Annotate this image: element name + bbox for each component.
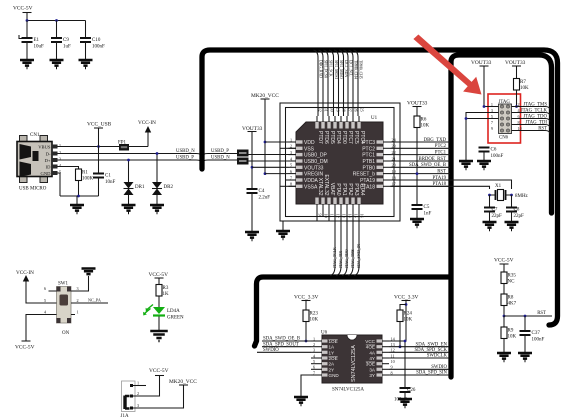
svg-text:VOUT33: VOUT33 (242, 126, 263, 132)
wire ID to R1 (58, 167, 79, 170)
svg-text:100K: 100K (82, 177, 94, 182)
svg-text:R8: R8 (508, 296, 514, 301)
wire DR2 to gnd (156, 195, 158, 204)
svg-text:R35: R35 (508, 274, 517, 279)
wire SDA_SWD_OE_B (262, 340, 311, 342)
wire SWDIO left (257, 351, 311, 353)
capacitor C6 100nF (479, 148, 490, 152)
svg-text:JTAG_TDO: JTAG_TDO (345, 249, 349, 268)
svg-text:SW1: SW1 (58, 282, 69, 287)
svg-text:VOUT33: VOUT33 (407, 101, 428, 107)
U6 pin 7 GND (322, 373, 328, 376)
svg-text:4Y: 4Y (369, 356, 375, 361)
wire pin3 to gnd (466, 113, 499, 161)
svg-text:USB0_DP: USB0_DP (304, 153, 327, 159)
U1 pin 14 PTA2 (345, 198, 348, 205)
svg-text:SDA_SPD_SIN: SDA_SPD_SIN (416, 371, 447, 376)
wire C1 to gnd rail (98, 178, 100, 197)
U1 pin 16 PTA4 (357, 198, 360, 205)
svg-text:10nF: 10nF (105, 180, 116, 185)
CN1 pin 5 GND (52, 171, 58, 175)
svg-text:12: 12 (336, 214, 341, 218)
wire bundle MCU top to highlighted bus (314, 50, 319, 116)
svg-text:R24: R24 (404, 312, 413, 317)
TVS diode DR2 (152, 182, 162, 189)
svg-text:VCC-5V: VCC-5V (494, 258, 514, 264)
wire C5 to gnd (416, 209, 418, 218)
power flag VCC-5V (RST) (500, 263, 509, 265)
U1 pin 27 PTC7 (345, 122, 348, 129)
thick highlighted trace (to 74LVC125A) (255, 277, 451, 346)
U1 pin 1 VDD (296, 140, 303, 143)
svg-text:2OE: 2OE (329, 356, 338, 361)
svg-text:SDA_SPD_SCK: SDA_SPD_SCK (414, 348, 447, 353)
svg-text:SDA_SWD_EN: SDA_SWD_EN (416, 342, 448, 347)
resistor network on USB lines (237, 150, 249, 157)
svg-text:10K: 10K (404, 318, 413, 323)
svg-text:C10: C10 (92, 38, 101, 43)
resistor R1 (76, 169, 82, 181)
wire C4 to gnd (251, 193, 253, 231)
wire X1 to C7 (489, 195, 491, 207)
wire VCC_USB to C1 (98, 128, 100, 173)
svg-text:1: 1 (313, 336, 315, 341)
svg-text:1: 1 (77, 310, 79, 315)
wire cap rail (27, 20, 86, 22)
wire C10 bottom lead (85, 42, 87, 59)
svg-text:VDDA: VDDA (304, 178, 319, 184)
svg-text:13: 13 (342, 214, 347, 218)
svg-text:NC: NC (508, 280, 516, 285)
svg-text:C37: C37 (532, 331, 541, 336)
svg-text:JTAG_TDI: JTAG_TDI (339, 250, 343, 268)
svg-text:SWDCLK: SWDCLK (427, 354, 448, 359)
wire SDA_SPD_SIN (389, 374, 449, 376)
svg-text:C8: C8 (514, 208, 520, 213)
power flag VCC-5V (23, 12, 32, 14)
wire to C26 (404, 341, 406, 388)
wire to VDD (265, 141, 289, 143)
svg-text:J1A: J1A (121, 414, 129, 419)
svg-text:3: 3 (59, 157, 61, 162)
wire pin5 join (466, 118, 499, 120)
svg-text:16: 16 (360, 214, 365, 218)
ground C9 (50, 60, 64, 68)
wire XTAL32 (316, 211, 318, 221)
ground JTAG A (459, 161, 473, 169)
svg-text:1uF: 1uF (63, 45, 71, 50)
U6 pin 8 3Y (377, 373, 383, 376)
wire R3 to LED (158, 296, 160, 307)
svg-text:E1: E1 (34, 38, 40, 43)
svg-text:D+: D+ (45, 158, 51, 163)
U1 pin 24 PTC3 (377, 140, 384, 143)
svg-text:SN74LVC125A: SN74LVC125A (332, 388, 364, 393)
U1 pin 3 USB0_DP (296, 153, 303, 156)
power flag VCC-5V (LED) (155, 277, 164, 279)
ground C7 (483, 222, 497, 230)
svg-text:22pF: 22pF (514, 214, 525, 219)
svg-text:100nF: 100nF (532, 338, 545, 343)
capacitor C26 100nF (400, 388, 411, 392)
svg-text:CN1: CN1 (30, 133, 40, 138)
svg-text:SPI1_PCS0: SPI1_PCS0 (324, 60, 328, 78)
wire VSS to loop (280, 147, 296, 149)
svg-text:SDA_SWD_OE_B: SDA_SWD_OE_B (263, 337, 300, 342)
wire to USB0_DP (249, 154, 297, 156)
svg-text:6: 6 (313, 365, 315, 370)
ground MCU (276, 231, 290, 239)
svg-text:DR1: DR1 (135, 185, 145, 190)
svg-text:SDA_SWD_IN: SDA_SWD_IN (357, 244, 361, 268)
wire USBD_P net left (58, 160, 238, 164)
U1 pin 9 XTAL32 (315, 198, 318, 205)
U1 pin 6 VREGIN (296, 172, 303, 175)
capacitor C7 22pF (484, 208, 495, 212)
svg-text:JTAG_TDO: JTAG_TDO (523, 115, 547, 120)
U1 pin 11 VBAT (327, 198, 330, 205)
power flag VCC_3.3V (R24) (402, 300, 411, 302)
power flag VOUT33 (R7) (512, 65, 521, 67)
TVS diode DR1 (124, 182, 134, 189)
wire X1 to C8 (511, 195, 513, 207)
svg-text:VOUT33: VOUT33 (471, 60, 492, 66)
U1 pin 7 VDDA (296, 178, 303, 181)
ground C8 (505, 222, 519, 230)
svg-text:D-: D- (46, 151, 51, 156)
svg-text:PTC1: PTC1 (362, 153, 375, 159)
svg-text:ON: ON (62, 331, 70, 336)
U1 pin 28 PTD0 (339, 122, 342, 129)
svg-text:22pF: 22pF (492, 214, 503, 219)
svg-text:PTD7: PTD7 (317, 131, 323, 144)
U1 pin 18 PTA19 (377, 178, 384, 181)
svg-text:R9: R9 (508, 329, 514, 334)
power flag VCC_3.3V (R23) (302, 300, 311, 302)
U6 pin 11 4Y (377, 356, 383, 359)
svg-text:SWDIO: SWDIO (431, 365, 447, 370)
svg-text:SN74LVC125A: SN74LVC125A (351, 345, 357, 382)
wire E1 top lead (26, 21, 28, 38)
ground SW1 (82, 269, 96, 275)
net label JTAG_TMS (512, 107, 551, 110)
svg-text:R3: R3 (163, 286, 169, 291)
svg-text:2Y: 2Y (329, 367, 335, 372)
svg-text:X1: X1 (495, 184, 502, 189)
wire bundle MCU to 74LVC125A bus (330, 211, 335, 276)
svg-text:VCC-5V: VCC-5V (149, 272, 169, 278)
wire VCC-IN lead (147, 132, 149, 147)
capacitor C37 100nF (520, 331, 531, 335)
svg-text:U1: U1 (371, 116, 378, 121)
svg-text:2A: 2A (329, 362, 336, 367)
svg-text:PTC5: PTC5 (353, 131, 359, 144)
svg-text:1OE: 1OE (329, 339, 338, 344)
wire R7 to TMS (516, 90, 518, 107)
svg-text:VCC-IN: VCC-IN (16, 270, 34, 276)
red highlight arrow (413, 35, 481, 95)
resistor R35 (501, 272, 507, 284)
wire box to gnd (282, 221, 284, 230)
svg-text:R6: R6 (421, 118, 427, 123)
svg-text:C1: C1 (105, 174, 111, 179)
resistor R9 (501, 327, 507, 339)
svg-text:VCC: VCC (365, 339, 375, 344)
net label JTAG_TDO (512, 119, 551, 122)
svg-text:2.2uF: 2.2uF (259, 196, 271, 201)
U1 pin 25 PTC4 (357, 122, 360, 129)
svg-text:VCC_3.3V: VCC_3.3V (394, 295, 419, 301)
capacitor C9 1uF (51, 38, 62, 42)
svg-text:28: 28 (342, 108, 347, 112)
power flag MK20_VCC (J1A) (179, 384, 188, 386)
svg-text:5: 5 (290, 163, 292, 168)
svg-text:3OE: 3OE (366, 362, 375, 367)
U6 pin 14 VCC (377, 339, 383, 342)
U1 pin 22 PTC1 (377, 153, 384, 156)
svg-text:100nF: 100nF (491, 154, 504, 159)
wire R35 to R8 (503, 284, 505, 295)
svg-text:VCC-5V: VCC-5V (15, 345, 35, 351)
svg-text:PTD5: PTD5 (329, 131, 335, 144)
svg-text:USBD_N: USBD_N (176, 149, 195, 154)
U1 pin 8 VSSA (296, 185, 303, 188)
wire J1A pin1 (132, 385, 147, 387)
svg-text:100nF: 100nF (92, 45, 105, 50)
thick highlighted trace (inner SWD branch) (451, 55, 552, 377)
wire VBUS net (58, 146, 149, 148)
svg-text:DR2: DR2 (164, 185, 174, 190)
U6 pin 12 4A (377, 351, 383, 354)
wire C37 to gnd (524, 335, 526, 352)
svg-text:5: 5 (313, 359, 315, 364)
svg-text:10K: 10K (508, 335, 517, 340)
wire VCC-IN to pin5 (26, 282, 49, 304)
svg-text:RESET_b: RESET_b (353, 172, 375, 178)
svg-text:10: 10 (324, 214, 329, 218)
svg-text:PTD4: PTD4 (335, 131, 341, 144)
svg-text:VREGIN: VREGIN (304, 172, 324, 178)
ground U6 (294, 397, 308, 405)
wire gnd rail (60, 195, 99, 197)
svg-text:SDA_SPD_SOUT: SDA_SPD_SOUT (263, 342, 299, 347)
svg-text:10K: 10K (310, 318, 319, 323)
svg-text:JTAG_TMS: JTAG_TMS (351, 249, 355, 268)
wire PTA19 to X1 right (391, 180, 512, 189)
svg-text:PTA0: PTA0 (335, 183, 341, 195)
resistor R6 (414, 116, 420, 128)
wire GND pin (301, 375, 311, 396)
wire SWDIO right (389, 368, 449, 370)
svg-text:6: 6 (290, 169, 292, 174)
svg-text:PTC7: PTC7 (347, 131, 353, 144)
ground C5 (410, 219, 424, 227)
svg-text:3: 3 (313, 348, 315, 353)
wire to VREGIN (265, 173, 289, 175)
wire SDA_SPD_SCK (389, 351, 449, 353)
U1 pin 19 RESET_b (377, 172, 384, 175)
U1 pin 10 EXTAL32 (321, 198, 324, 205)
U1 pin 29 PTD4 (333, 122, 336, 129)
U1 pin 21 PTB1 (377, 159, 384, 162)
wire SWDCLK (389, 357, 449, 359)
svg-text:USB0_DM: USB0_DM (304, 159, 328, 165)
wire R1 to gnd rail (78, 181, 80, 197)
U1 pin 23 PTC2 (377, 147, 384, 150)
ground C37 (518, 353, 532, 361)
wire R23 to pin1 (305, 322, 307, 342)
svg-text:1K: 1K (163, 292, 170, 297)
svg-text:1: 1 (59, 143, 61, 148)
svg-text:30: 30 (330, 108, 335, 112)
svg-text:NC_PA: NC_PA (88, 298, 101, 303)
power flag VOUT33 (R6) (413, 106, 422, 108)
wire C9 top lead (56, 21, 58, 38)
svg-text:SPI1_MOSI: SPI1_MOSI (334, 60, 338, 80)
capacitor C8 22pF (506, 208, 517, 212)
svg-text:C7: C7 (492, 208, 498, 213)
svg-text:VCC-5V: VCC-5V (13, 6, 33, 12)
resistor R23 (303, 310, 309, 322)
svg-text:32: 32 (318, 108, 323, 112)
svg-text:10: 10 (391, 359, 395, 364)
svg-text:JTAG_TMS: JTAG_TMS (523, 103, 547, 108)
svg-text:VCC-IN: VCC-IN (138, 120, 156, 126)
svg-text:PTA1: PTA1 (341, 183, 347, 195)
wire RST to bus (504, 315, 552, 317)
capacitor C5 1nF (412, 205, 423, 209)
wire R6 to C5 (416, 128, 418, 205)
capacitor C4 2.2uF (247, 189, 258, 193)
svg-text:27: 27 (348, 108, 353, 112)
svg-text:1nF: 1nF (424, 212, 432, 217)
resistor R3 (156, 285, 162, 297)
ground DR1 (122, 205, 136, 213)
wire J1A pin2 to VCC-5V (132, 376, 160, 397)
U6 pin 9 3A (377, 368, 383, 371)
wire C9 bottom lead (56, 42, 58, 59)
wire pin2 NC (75, 302, 108, 304)
svg-text:MK20_VCC: MK20_VCC (169, 379, 197, 385)
wire USBD_N net left (58, 154, 238, 158)
wire VDDA to loop (286, 179, 297, 181)
U6 pin 10 3OE (377, 362, 383, 365)
wire VOUT33 to pin1 (483, 66, 485, 107)
svg-text:10K: 10K (421, 124, 430, 129)
LED LD4A green (153, 307, 165, 314)
svg-text:TPM0_CH5: TPM0_CH5 (359, 60, 363, 79)
svg-text:C4: C4 (259, 189, 265, 194)
wire C7 to gnd (489, 212, 491, 222)
svg-text:3: 3 (290, 150, 292, 155)
capacitor C1 10nF (93, 174, 104, 178)
svg-text:EXTAL32: EXTAL32 (323, 174, 329, 195)
wire wrap-around outer loop (280, 103, 400, 221)
svg-text:1: 1 (290, 137, 292, 142)
U1 pin 4 USB0_DM (296, 159, 303, 162)
wire DR1 to gnd (128, 195, 130, 204)
resistor R8 (501, 294, 507, 306)
net label JTAG_TCLK (512, 113, 551, 116)
resistor R24 (397, 310, 403, 322)
svg-text:VOUT33: VOUT33 (505, 60, 526, 66)
power flag VCC-5V (J1A) (155, 375, 164, 377)
svg-text:10uF: 10uF (34, 45, 45, 50)
svg-text:2: 2 (137, 391, 139, 396)
svg-text:GREEN: GREEN (167, 316, 184, 321)
ground E1 (20, 60, 34, 68)
wire MK20_VCC to VREGIN (264, 99, 266, 174)
wire E1 bottom lead (26, 42, 28, 59)
svg-text:USB MICRO: USB MICRO (19, 187, 47, 192)
power flag VCC-5V (SW1) (22, 340, 31, 342)
U6 pin 3 1Y (322, 351, 328, 354)
ground USB (70, 205, 84, 213)
wire pin3 to gnd (75, 276, 89, 291)
svg-text:USBD_N: USBD_N (211, 156, 230, 161)
svg-text:SPI1_MISO: SPI1_MISO (339, 60, 343, 79)
svg-text:2: 2 (59, 150, 61, 155)
capacitor E1 10uF (22, 38, 33, 42)
ground LED (150, 331, 168, 341)
svg-text:2: 2 (313, 342, 315, 347)
svg-text:XTAL32: XTAL32 (317, 178, 323, 196)
wire to R35 (503, 264, 505, 272)
svg-text:C9: C9 (63, 38, 69, 43)
svg-text:4K7: 4K7 (508, 302, 517, 307)
wire pin4 to VCC-5V (26, 315, 49, 342)
svg-text:RST: RST (538, 127, 547, 132)
wire to R9 (503, 316, 505, 327)
svg-text:VBUS: VBUS (38, 144, 51, 149)
wire to VOUT33 pin (252, 166, 289, 168)
svg-text:VDD: VDD (304, 140, 315, 146)
wire C10 top lead (85, 21, 87, 38)
svg-text:VCC_3.3V: VCC_3.3V (294, 295, 319, 301)
wire DR1 lead (128, 160, 130, 182)
capacitor C10 100nF (80, 38, 91, 42)
svg-text:1A: 1A (329, 345, 336, 350)
svg-text:2: 2 (77, 298, 79, 303)
net label RST (512, 131, 551, 134)
U1 pin 15 PTA3 (351, 198, 354, 205)
thick highlighted trace (USB to RST loop) (202, 50, 558, 325)
wire DR2 lead (156, 154, 158, 183)
svg-text:JTAG_TCLK: JTAG_TCLK (521, 109, 548, 114)
svg-text:SPI1_SCK: SPI1_SCK (329, 60, 333, 77)
svg-text:ID: ID (46, 164, 52, 169)
svg-text:GND: GND (41, 171, 52, 176)
svg-text:PTD6: PTD6 (323, 131, 329, 144)
svg-text:C26: C26 (407, 388, 416, 393)
svg-text:7: 7 (491, 120, 493, 125)
wire to ground (76, 196, 78, 204)
svg-text:1Y: 1Y (329, 350, 335, 355)
wire to USB0_DM (249, 160, 297, 162)
wire branch R24 (400, 305, 406, 311)
svg-text:VOUT33: VOUT33 (304, 165, 324, 171)
wire pin1 (484, 106, 499, 108)
CN1 pin 2 D- (52, 152, 58, 156)
U1 pin 2 VSS (296, 147, 303, 150)
U1 pin 13 PTA1 (339, 198, 342, 205)
wire VOUT33 to C4 (251, 132, 253, 189)
net label JTAG_TDI (512, 125, 551, 128)
ground R9 (497, 353, 511, 361)
svg-text:PTA2: PTA2 (347, 183, 353, 195)
svg-text:DBG_RXD: DBG_RXD (319, 60, 323, 78)
ground C6 (477, 161, 491, 169)
